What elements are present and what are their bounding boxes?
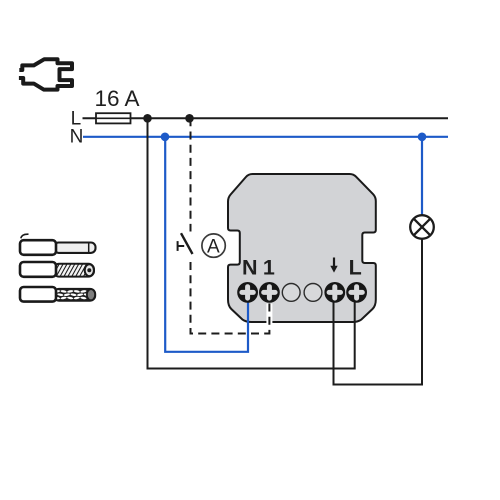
- wire: dashed push-button branch lower segment to terminal 1: [191, 262, 270, 334]
- unused terminal hole 1: [282, 284, 300, 302]
- device U1: flush-mount dimmer module body: [228, 174, 376, 322]
- cable pictogram: solid core wire: [20, 234, 96, 255]
- svg-text:A: A: [207, 236, 220, 257]
- svg-text:16 A: 16 A: [95, 86, 140, 111]
- junction dot on L (feeds device L terminal): [143, 114, 152, 123]
- svg-text:1: 1: [263, 256, 275, 280]
- wire: dashed push-button branch upper segment: [190, 118, 192, 231]
- junction dot on N (blue, feeds device N terminal): [161, 133, 170, 142]
- screw terminal 1: [259, 282, 280, 303]
- lamp E1 (circle with X): [410, 215, 434, 239]
- terminal label arrow (switched output): [330, 258, 337, 273]
- wire: L line horizontal: [83, 117, 449, 119]
- wire: lamp return loop from terminal arrow down, across, up to lamp: [334, 239, 423, 385]
- svg-text:N: N: [242, 256, 258, 280]
- svg-text:N: N: [70, 126, 84, 147]
- plug / connector pictogram: [19, 59, 72, 89]
- push-button contact symbol: [178, 233, 193, 254]
- junction dot on N (blue, feeds lamp): [418, 133, 427, 142]
- unused terminal hole 2: [304, 284, 322, 302]
- wire: live loop from L junction down, across, up to terminal L: [148, 118, 355, 368]
- screw terminal arrow (switched live out): [324, 282, 345, 303]
- wire: blue drop from N junction to lamp top: [421, 137, 423, 216]
- wire: N line horizontal (blue): [83, 136, 448, 138]
- junction dot on L (feeds push-button dashed branch): [185, 114, 194, 123]
- screw terminal L: [346, 282, 367, 303]
- fuse F1 16A: [96, 113, 131, 123]
- white halo for dashed wire inside device: [266, 304, 272, 332]
- cable pictogram: fine stranded wire with braid: [20, 287, 96, 302]
- circled A (automatic push-button): [202, 234, 225, 257]
- cable pictogram: stranded wire: [20, 262, 98, 277]
- svg-text:L: L: [349, 256, 362, 280]
- wire: neutral (blue) from N junction down, across, up to terminal N: [165, 137, 248, 352]
- screw terminal N: [237, 282, 258, 303]
